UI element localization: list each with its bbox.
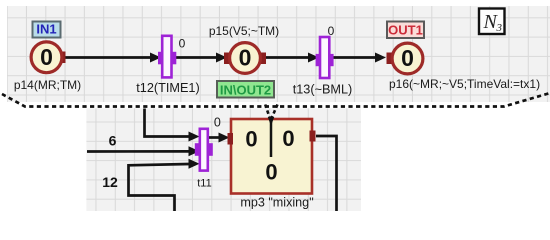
wire p14 to t12 <box>64 53 161 63</box>
svg-text:p14(MR;TM): p14(MR;TM) <box>14 78 81 92</box>
port IN1 <box>33 22 61 38</box>
svg-text:0: 0 <box>282 126 294 151</box>
svg-text:OUT1: OUT1 <box>388 23 423 38</box>
port IN\OUT2 <box>217 81 274 98</box>
svg-text:p15(V5;~TM): p15(V5;~TM) <box>209 24 279 38</box>
transition t12 <box>158 36 176 78</box>
svg-text:0: 0 <box>245 126 257 151</box>
net label N3 <box>479 9 505 35</box>
transition t13 <box>316 37 334 78</box>
svg-text:0: 0 <box>265 159 277 184</box>
svg-text:p16(~MR;~V5;TimeVal:=tx1): p16(~MR;~V5;TimeVal:=tx1) <box>389 77 540 91</box>
svg-text:6: 6 <box>109 133 117 149</box>
place p15 <box>224 43 266 74</box>
place p16 <box>387 43 423 74</box>
wire mp3 output right <box>316 136 337 211</box>
wire t13 to p16 <box>330 53 387 63</box>
subnet N3 dashed boundary <box>2 93 550 107</box>
wire weight-12 input to t11 (bottom input) <box>129 159 200 211</box>
svg-text:0: 0 <box>328 24 335 38</box>
macro place mp3 box <box>228 119 316 194</box>
grid canvas top strip <box>7 6 550 102</box>
wire t11 to mp3 <box>208 133 230 143</box>
svg-text:0: 0 <box>40 44 53 70</box>
svg-text:t13(~BML): t13(~BML) <box>293 83 353 97</box>
grid canvas bottom strip <box>86 108 361 211</box>
wire t12 to p15 <box>172 53 227 63</box>
svg-text:IN\OUT2: IN\OUT2 <box>220 83 271 98</box>
wire weight-6 input to t11 (middle input) <box>87 146 200 156</box>
svg-text:t11: t11 <box>197 178 211 190</box>
svg-text:3: 3 <box>496 22 503 34</box>
svg-text:12: 12 <box>102 174 118 190</box>
dashed link V to macro box mp3 <box>265 105 277 127</box>
svg-text:t12(TIME1): t12(TIME1) <box>136 81 199 95</box>
transition t11 <box>195 129 213 171</box>
svg-text:mp3 "mixing": mp3 "mixing" <box>240 196 313 210</box>
svg-text:0: 0 <box>179 37 186 51</box>
svg-text:0: 0 <box>401 45 414 71</box>
wire from boundary down into t11 (top input) <box>145 109 200 142</box>
place p14 <box>31 42 65 73</box>
port OUT1 <box>387 22 424 39</box>
svg-text:IN1: IN1 <box>36 22 56 37</box>
wire p15 to t13 <box>266 53 319 63</box>
svg-text:0: 0 <box>239 45 252 71</box>
svg-text:0: 0 <box>214 116 221 130</box>
